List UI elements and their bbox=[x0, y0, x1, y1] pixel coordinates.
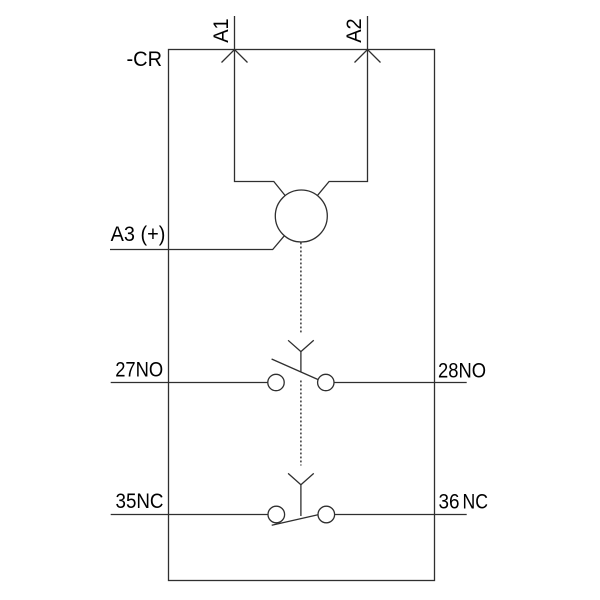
label 28NO bbox=[438, 359, 486, 382]
terminal A2 lead wire bbox=[317, 16, 367, 196]
terminal A1 arrowhead bbox=[222, 50, 248, 63]
coil -CR bbox=[275, 190, 327, 242]
svg-text:A2: A2 bbox=[343, 18, 366, 43]
NO contact terminal 28 circle bbox=[318, 374, 334, 390]
mechanical link dashed (coil to NO contact) bbox=[300, 243, 302, 334]
wire 27NO bbox=[111, 382, 268, 384]
svg-text:A3 (+): A3 (+) bbox=[111, 223, 166, 246]
label A1 bbox=[210, 18, 233, 43]
NO contact moving blade bbox=[272, 359, 319, 380]
svg-text:28NO: 28NO bbox=[438, 359, 486, 382]
svg-text:36: 36 bbox=[439, 491, 460, 514]
wire 36NC bbox=[335, 514, 467, 516]
label 35NC bbox=[116, 490, 164, 513]
svg-text:-CR: -CR bbox=[127, 48, 163, 71]
NC contact terminal 35 circle bbox=[268, 506, 285, 523]
NC contact actuator fork bbox=[288, 473, 314, 516]
NO contact actuator fork bbox=[288, 340, 314, 371]
NC contact moving blade bbox=[272, 515, 318, 526]
label 27NO bbox=[115, 358, 163, 381]
relay enclosure outline bbox=[169, 50, 435, 581]
NC contact terminal 36 circle bbox=[318, 506, 335, 523]
svg-text:NC: NC bbox=[463, 491, 489, 514]
terminal A1 lead wire bbox=[235, 16, 286, 196]
wire 28NO bbox=[334, 382, 467, 384]
label -CR bbox=[127, 48, 163, 71]
label A3 (+) bbox=[111, 223, 166, 246]
svg-text:27NO: 27NO bbox=[115, 358, 163, 381]
svg-text:A1: A1 bbox=[210, 18, 233, 43]
wire 35NC bbox=[111, 514, 268, 516]
label A2 bbox=[343, 18, 366, 43]
NO contact terminal 27 circle bbox=[268, 374, 284, 390]
terminal A3 lead wire bbox=[110, 236, 284, 250]
label 36NC bbox=[439, 491, 489, 514]
svg-text:35NC: 35NC bbox=[116, 490, 164, 513]
mechanical link dashed (NO to NC contact) bbox=[300, 381, 302, 466]
terminal A2 arrowhead bbox=[355, 50, 381, 63]
